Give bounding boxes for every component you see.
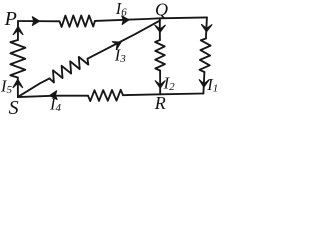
current arrow on left wire below P (pointing up) — [13, 26, 23, 34]
resistor R2 (left, between S and P, current I5) — [10, 40, 25, 78]
wire: left segment from resistor R2 down to S corner — [17, 78, 19, 98]
resistor R4 (bottom, between R and S, current I4) — [88, 90, 123, 101]
svg-text:Q: Q — [155, 0, 168, 19]
wire: left segment from P corner down to resistor R2 — [17, 21, 19, 40]
svg-text:S: S — [9, 97, 19, 116]
svg-text:I2: I2 — [163, 74, 176, 94]
circuit schematic: resistor bridge network with nodes P, Q, R, S — [0, 0, 223, 116]
current arrow I3 (on diagonal, pointing up-right toward Q) — [112, 42, 121, 50]
wire: right segment from resistor R6 down to bottom-right corner — [203, 72, 204, 94]
current arrow on middle branch below Q (pointing down) — [155, 25, 165, 32]
svg-text:I1: I1 — [206, 75, 218, 95]
resistor R1 (top, between P and Q, current I6) — [60, 15, 96, 27]
svg-text:I5: I5 — [0, 77, 13, 97]
current arrow on top wire near P (pointing right) — [32, 17, 39, 26]
current arrow I4 (bottom wire, pointing left toward S) — [50, 91, 57, 100]
current arrow I2 (middle branch, pointing down into R) — [155, 81, 165, 88]
wire: top segment from P corner to resistor R1 — [18, 20, 60, 22]
wire: diagonal from S corner up to resistor R3 — [18, 78, 50, 97]
svg-text:I4: I4 — [49, 95, 62, 115]
resistor R6 (right vertical, between Q and R, current I1) — [200, 39, 211, 73]
wire: middle branch from resistor R5 down to R junction — [159, 71, 161, 95]
current arrow I1 (right branch, pointing down) — [199, 80, 209, 87]
resistor R5 (middle vertical, between Q and R, current I2) — [155, 40, 165, 71]
svg-text:I3: I3 — [114, 46, 127, 66]
wire: bottom segment from S corner to resistor R4 — [18, 96, 88, 97]
wire: top segment from resistor R1 through Q junction to top-right corner — [95, 17, 207, 21]
wire: diagonal from resistor R3 up to Q junction — [88, 21, 160, 59]
wire: middle branch from Q junction down to resistor R5 — [159, 18, 161, 40]
svg-text:P: P — [4, 8, 17, 30]
current arrow on right wire below top-right corner (pointing down) — [202, 25, 212, 32]
current arrow I6 (top wire, pointing right into Q) — [122, 16, 129, 25]
wire: bottom segment from resistor R4 through R junction to bottom-right corner — [123, 94, 203, 96]
svg-text:R: R — [154, 93, 166, 113]
wire: right segment from top-right corner down to resistor R6 — [206, 17, 207, 38]
svg-text:I6: I6 — [115, 0, 128, 19]
current arrow I5 (left wire above S, pointing up) — [13, 79, 23, 87]
resistor R3 (diagonal, between S and Q, current I3) — [50, 57, 89, 83]
